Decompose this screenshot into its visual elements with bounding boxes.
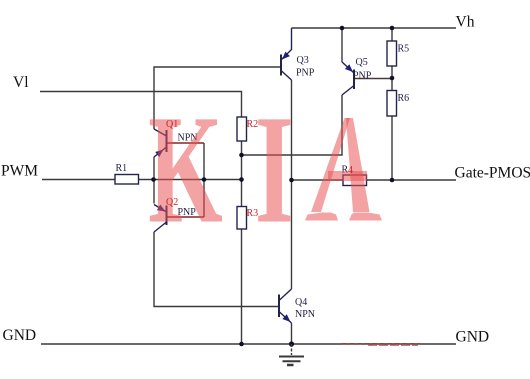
transistor Q3 emitter diagonal <box>281 28 292 60</box>
transistor Q5 bar <box>353 70 355 90</box>
svg-text:Q5: Q5 <box>356 57 368 68</box>
transistor Q2 collector diagonal <box>154 222 167 232</box>
junction dot gate node <box>289 178 294 183</box>
wire Q1 collector to Q3 base (top wire) <box>154 67 281 129</box>
red artifact on GND line <box>342 343 420 345</box>
wire Q2 collector to Q4 base <box>154 232 279 307</box>
wire Vh rail <box>292 27 457 29</box>
junction dot Q4 emitter GND <box>289 341 294 346</box>
svg-text:GND: GND <box>3 327 37 344</box>
svg-text:Vl: Vl <box>13 74 29 91</box>
svg-text:PWM: PWM <box>1 163 38 180</box>
transistor Q5 collector diagonal <box>342 86 354 96</box>
svg-text:4: 4 <box>348 165 353 176</box>
transistor Q1 bar <box>166 130 168 152</box>
ground symbol <box>279 344 304 365</box>
svg-text:R1: R1 <box>116 163 128 174</box>
junction dot R6 gate <box>390 178 395 183</box>
svg-text:K: K <box>148 84 223 256</box>
transistor Q4 collector diagonal <box>279 289 292 301</box>
wire Q4 emitter vertical <box>291 323 293 344</box>
wire gate node to R4 <box>292 179 344 181</box>
wire center vertical R2 bottom to R3 top <box>241 141 243 207</box>
wire Q1 emitter vertical <box>153 157 155 180</box>
resistor R2 box <box>237 117 247 141</box>
svg-text:Q4: Q4 <box>295 297 307 308</box>
wire PWM left segment <box>42 179 115 181</box>
arrow Q5 emitter <box>345 64 353 72</box>
svg-text:R2: R2 <box>247 119 259 130</box>
wire Q3 collector to Q4 collector vertical <box>291 80 293 289</box>
resistor R3 box <box>237 207 247 230</box>
junction dot R5 R6 base <box>390 76 395 81</box>
svg-text:Q1: Q1 <box>166 119 178 130</box>
svg-text:Q2: Q2 <box>166 197 178 208</box>
wire Q5 emitter vertical <box>341 28 343 62</box>
wire Q2 emitter vertical <box>153 180 155 204</box>
arrow Q3 emitter <box>282 52 290 60</box>
pin Q5 base <box>354 78 392 80</box>
transistor Q2 emitter diagonal <box>154 205 167 213</box>
svg-text:Gate-PMOS: Gate-PMOS <box>455 165 530 182</box>
svg-text:GND: GND <box>456 329 490 346</box>
junction dot base chain node <box>202 177 207 182</box>
svg-text:Vh: Vh <box>456 14 475 31</box>
svg-text:PNP: PNP <box>296 68 315 79</box>
transistor Q5 emitter diagonal <box>342 62 354 73</box>
wire R4 to Gate-PMOS <box>367 179 457 181</box>
junction dot center GND <box>239 342 244 347</box>
svg-text:Q3: Q3 <box>297 55 309 66</box>
resistor R4 box <box>343 175 367 186</box>
watermark KIA <box>148 83 293 256</box>
transistor Q3 bar <box>280 55 282 76</box>
wire R6 bottom to gate line <box>391 116 393 180</box>
junction dot R2 bottom <box>239 153 244 158</box>
watermark letter A (custom) <box>305 118 382 221</box>
transistor Q4 bar <box>278 295 280 318</box>
junction dot rail Q5 <box>340 26 345 31</box>
junction dot rail R5 <box>390 26 395 31</box>
svg-text:R5: R5 <box>398 44 410 55</box>
arrow Q4 emitter <box>282 314 290 322</box>
wire GND rail <box>41 343 456 345</box>
wire R2 bottom node to Q5 collector <box>242 95 343 155</box>
wire R1 to junction to center <box>139 179 242 181</box>
transistor Q3 collector diagonal <box>281 71 292 81</box>
svg-text:NPN: NPN <box>295 309 315 320</box>
wire Vl horizontal <box>40 92 242 118</box>
wire R5 bottom to R6 top <box>391 66 393 91</box>
pin Q2 base (maroon) <box>167 216 204 218</box>
svg-text:R3: R3 <box>247 208 259 219</box>
transistor Q1 emitter diagonal <box>154 147 167 157</box>
transistor Q4 emitter diagonal <box>279 312 292 324</box>
resistor R5 box <box>387 41 397 66</box>
svg-text:I: I <box>255 83 294 256</box>
resistor R1 box <box>115 175 139 185</box>
junction dot center PWM <box>239 177 244 182</box>
arrow Q2 emitter <box>157 205 166 212</box>
transistor Q2 bar <box>166 206 168 226</box>
resistor R6 box <box>387 91 397 117</box>
pin Q1 base (maroon) <box>167 142 204 144</box>
wire Q1 base down to PWM node <box>203 143 205 217</box>
transistor Q1 collector diagonal <box>154 129 167 136</box>
svg-text:PNP: PNP <box>353 70 372 81</box>
junction dot PWM node <box>151 177 156 182</box>
svg-text:R6: R6 <box>398 93 410 104</box>
wire Vh rail to R5 <box>391 28 393 41</box>
red labels over watermark <box>166 119 353 219</box>
wire R3 bottom to GND <box>241 229 243 344</box>
arrow Q1 emitter <box>155 150 163 158</box>
